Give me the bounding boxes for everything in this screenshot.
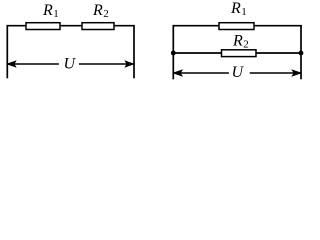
arrowhead left (right circuit)	[173, 70, 182, 76]
svg-text:R: R	[230, 0, 241, 17]
svg-text:2: 2	[103, 8, 109, 20]
resistor R2 (right circuit)	[222, 50, 257, 57]
resistor R1 (right circuit)	[219, 23, 254, 30]
voltage arrow U (left circuit)	[7, 63, 59, 65]
svg-text:R: R	[92, 2, 103, 19]
resistor R2 (left circuit)	[82, 23, 114, 30]
junction dot left	[171, 51, 176, 56]
svg-text:1: 1	[53, 8, 59, 20]
resistor R1 (left circuit)	[26, 23, 60, 30]
wire: R2 branch rail right circuit	[173, 52, 301, 54]
svg-text:1: 1	[241, 6, 247, 18]
wire: right vertical left circuit	[133, 25, 135, 78]
wire: top rail left circuit	[7, 25, 135, 27]
wire: left vertical right circuit	[172, 25, 174, 79]
wire: left vertical left circuit	[6, 25, 8, 78]
svg-text:R: R	[232, 33, 243, 50]
svg-text:2: 2	[243, 39, 249, 51]
svg-text:R: R	[42, 2, 53, 19]
wire: right vertical right circuit	[300, 25, 302, 79]
right parallel circuit	[171, 0, 303, 81]
arrowhead right (right circuit)	[292, 70, 301, 76]
voltage arrow U (right circuit)	[173, 72, 229, 74]
arrowhead left (left circuit)	[7, 61, 16, 67]
wire: top rail right circuit	[173, 25, 302, 27]
svg-text:U: U	[232, 64, 245, 81]
arrowhead right (left circuit)	[125, 61, 134, 67]
junction dot right	[299, 51, 304, 56]
left series circuit	[7, 2, 135, 78]
svg-text:U: U	[64, 56, 77, 73]
